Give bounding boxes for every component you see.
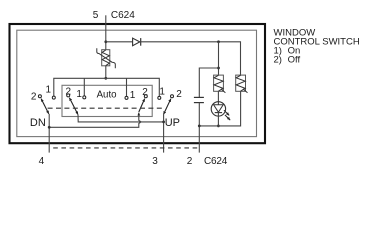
wire diode anode segment	[106, 41, 133, 43]
svg-text:1: 1	[130, 90, 136, 101]
svg-text:1: 1	[76, 89, 82, 100]
svg-text:2: 2	[31, 92, 37, 103]
svg-text:2: 2	[176, 89, 182, 100]
Auto switch box	[62, 85, 152, 116]
contact circle 1 auto-down	[83, 96, 86, 99]
circuit breaker CB	[97, 48, 116, 68]
diode D1	[133, 38, 141, 46]
switch arm UP	[164, 99, 171, 115]
node junction at diode tap	[104, 40, 107, 43]
wire diode cathode to resistor R2 drop	[141, 42, 241, 75]
node junction breaker-rail	[104, 77, 107, 80]
mechanical link dashed line	[48, 107, 165, 109]
contact circle 2 UP	[171, 95, 174, 98]
svg-text:DN: DN	[30, 117, 46, 129]
node junction LED-rail	[217, 125, 220, 128]
node junction cap-rail-pin2	[198, 125, 201, 128]
resistor R1	[214, 75, 226, 93]
contact circle 2 auto-down	[67, 94, 70, 97]
wire UP arm to pin 3	[163, 114, 165, 152]
contact circle 1 DN	[52, 96, 55, 99]
svg-text:1: 1	[159, 86, 165, 97]
svg-text:4: 4	[39, 156, 45, 167]
wire A auto-down arm to UP common	[78, 115, 164, 122]
contact circle 1 auto-up	[125, 96, 128, 99]
svg-text:2: 2	[187, 156, 193, 167]
wire R2 bottom rail	[199, 91, 240, 126]
svg-text:1: 1	[46, 84, 52, 95]
wire R1 feed vertical	[218, 42, 220, 75]
switch arm DN	[41, 99, 49, 114]
wire capacitor bottom to pin 2	[198, 103, 200, 153]
node junction wireB-pin4	[48, 126, 51, 129]
wire breaker to rail	[105, 66, 107, 79]
LED indicator	[211, 91, 230, 126]
svg-text:C624: C624	[204, 156, 228, 167]
svg-text:5: 5	[93, 10, 99, 21]
svg-text:UP: UP	[165, 117, 180, 129]
annotation text block	[274, 28, 360, 66]
wire pin5 feed vertical	[105, 15, 107, 49]
svg-text:3: 3	[152, 156, 158, 167]
svg-text:C624: C624	[111, 10, 135, 21]
switch arm auto-down	[69, 98, 78, 115]
outer box	[10, 24, 266, 143]
connector C624 dashed line	[53, 147, 199, 149]
resistor R2	[236, 75, 248, 93]
switch arm auto-up	[139, 99, 145, 112]
wire drop to contact 1 of auto-up	[126, 78, 128, 96]
wire drop to contact 1 of auto-down	[83, 78, 85, 95]
svg-text:Auto: Auto	[97, 90, 117, 101]
node junction R1 tap	[217, 40, 220, 43]
contact circle 2 auto-up	[144, 95, 147, 98]
wire contact rail	[54, 78, 160, 96]
contact circle 1 UP	[158, 96, 161, 99]
wire DN arm to pin 4	[48, 114, 50, 153]
node junction capacitor tap	[217, 67, 220, 70]
svg-text:2) Off: 2) Off	[274, 55, 301, 66]
capacitor C1	[194, 97, 204, 102]
inner box	[17, 30, 257, 136]
node junction wireA-pin3	[162, 121, 165, 124]
contact circle 2 DN	[38, 95, 41, 98]
wire capacitor top branch	[199, 68, 218, 97]
wire B DN common to auto-up arm with hop	[49, 113, 141, 128]
